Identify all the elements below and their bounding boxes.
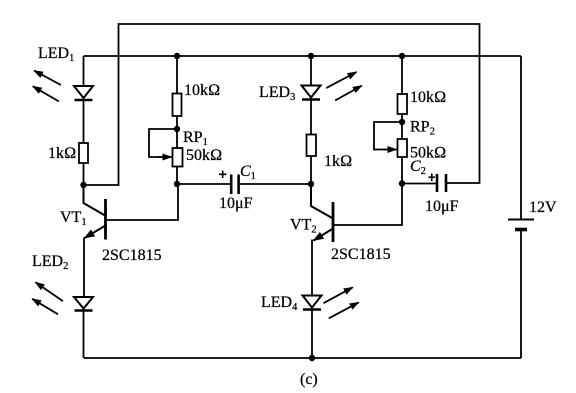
transistor VT2 2SC1815 [311,184,333,242]
node LED3 top junction [308,53,314,59]
LED LED3 [302,86,321,100]
wire VT2 emitter to LED4 [311,240,313,297]
node VT2 base junction [399,180,405,186]
label 50k ohm left [186,147,222,164]
svg-text:C1: C1 [240,163,256,182]
label RP1 [183,129,208,148]
svg-text:1kΩ: 1kΩ [48,145,76,162]
svg-text:RP1: RP1 [183,129,208,148]
wire 10k to RP1 [176,116,178,148]
label 1k ohm left [48,145,76,162]
capacitor C2 10uF [437,174,446,192]
svg-text:VT1: VT1 [60,209,87,228]
wire battery top lead [520,56,522,219]
label 10uF (C2) [425,198,459,215]
svg-text:LED1: LED1 [38,45,74,64]
wire LED2 cathode to ground rail [83,311,85,359]
wire LED1 cathode to 1k resistor [83,100,85,143]
svg-text:LED2: LED2 [32,253,68,272]
label C1 [240,163,256,182]
wire LED4 to ground rail [311,310,313,359]
capacitor C1 10uF [231,175,238,195]
label LED4 [261,294,298,313]
label 10k ohm left [184,82,220,99]
label VT1 [60,209,87,228]
arrow LED2 light ray upper [36,282,63,301]
svg-text:10μF: 10μF [219,195,253,212]
wire RP2 wiper loop [374,122,402,150]
node VT1 collector junction [80,182,86,188]
svg-text:2SC1815: 2SC1815 [331,246,391,263]
arrow RP2 wiper [383,149,397,151]
svg-text:10μF: 10μF [425,198,459,215]
node ground rail junction [309,355,315,361]
arrow LED4 light ray upper [324,287,353,303]
svg-text:50kΩ: 50kΩ [186,147,222,164]
node VT2 collector junction [308,181,314,187]
label 2SC1815 (VT1) [102,247,162,264]
svg-text:2SC1815: 2SC1815 [102,247,162,264]
LED LED2 [74,297,93,311]
label LED1 [38,45,74,64]
transistor VT1 2SC1815 [84,185,106,240]
potentiometer RP2 50k [398,139,408,157]
resistor 1k (left, under LED1) [79,143,88,163]
wire rail to LED3 [310,56,312,86]
wire VT2 base lead [333,187,402,226]
svg-text:LED3: LED3 [259,84,295,103]
resistor 1k (middle, under LED3) [307,135,317,157]
arrow LED3 light ray lower [335,86,362,101]
label VT2 [290,217,317,236]
node 10k (left) top junction [174,53,180,59]
wire base node to C2 [402,183,436,185]
wire RP1 to VT1 base node [176,167,178,185]
node RP1 top junction [174,126,180,132]
svg-text:1kΩ: 1kΩ [324,153,352,170]
svg-text:10kΩ: 10kΩ [410,89,446,106]
wire bottom ground rail [84,357,521,359]
battery 12V [508,220,534,230]
label 2SC1815 (VT2) [331,246,391,263]
label 1k ohm middle [324,153,352,170]
svg-text:RP2: RP2 [410,119,435,138]
node RP2 top junction [399,119,405,125]
wire C1 to VT2 collector node [240,183,311,185]
svg-text:(c): (c) [300,371,318,388]
label C2 plus [429,174,436,182]
svg-text:10kΩ: 10kΩ [184,82,220,99]
wire LED1 anode lead [83,56,85,86]
label LED3 [259,84,295,103]
label 12V [529,199,557,216]
wire top cross-coupling loop (VT1 collector to C2 right plate) [84,24,480,185]
wire RP1 wiper loop [149,129,177,157]
arrow LED1 light ray upper [34,71,61,85]
wire rail to 10k resistor (right) [401,56,403,94]
wire VT1 emitter to LED2 [83,238,85,298]
LED LED4 [303,296,322,310]
svg-text:12V: 12V [529,199,557,216]
arrow RP1 wiper [158,156,172,158]
label 10uF (C1) [219,195,253,212]
wire RP2 to VT2 base node [401,157,403,184]
wire 1k resistor to VT1 collector node [83,163,85,185]
wire battery bottom lead [520,230,522,359]
label (c) caption [300,371,318,388]
wire rail to 10k resistor (left) [176,56,178,94]
svg-text:VT2: VT2 [290,217,317,236]
wire 1k to VT2 collector node [310,156,312,184]
label C1 plus [219,171,227,179]
wire LED3 to 1k resistor (middle) [310,100,312,135]
arrow LED4 light ray lower [329,302,359,318]
svg-text:LED4: LED4 [261,294,298,313]
potentiometer RP1 50k [173,148,183,167]
label RP2 [410,119,435,138]
label 50k ohm right [410,145,446,162]
arrow LED3 light ray upper [326,72,356,88]
node 10k (right) top junction [399,53,405,59]
wire positive supply rail [84,55,522,57]
arrow LED2 light ray lower [32,299,58,315]
label C2 [410,158,426,177]
wire 10k to RP2 [401,114,403,139]
resistor 10k (right) [398,94,408,114]
wire VT1 base lead [106,187,179,220]
wire base node to C1 [177,183,230,185]
resistor 10k (left) [173,94,182,117]
LED LED1 [74,86,93,100]
label 10k ohm right [410,89,446,106]
node VT1 base junction [174,181,180,187]
arrow LED1 light ray lower [33,86,59,101]
label LED2 [32,253,68,272]
